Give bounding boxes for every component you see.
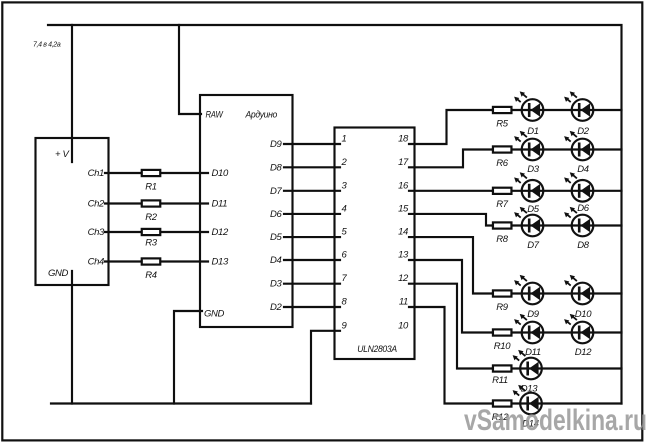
- svg-text:D6: D6: [577, 203, 590, 214]
- svg-text:R11: R11: [492, 375, 508, 386]
- svg-text:D9: D9: [527, 309, 540, 320]
- svg-text:D7: D7: [527, 240, 540, 251]
- svg-text:7,4 в 4,2а: 7,4 в 4,2а: [33, 42, 61, 49]
- svg-text:5: 5: [342, 227, 348, 238]
- svg-text:D2: D2: [577, 126, 590, 137]
- svg-text:D1: D1: [527, 126, 539, 137]
- svg-text:12: 12: [398, 273, 409, 284]
- svg-text:R6: R6: [496, 158, 509, 169]
- svg-text:GND: GND: [48, 268, 69, 279]
- svg-text:2: 2: [341, 157, 348, 168]
- svg-text:R8: R8: [496, 234, 509, 245]
- svg-text:D13: D13: [521, 384, 538, 395]
- svg-text:14: 14: [398, 227, 408, 238]
- svg-text:11: 11: [399, 297, 408, 308]
- svg-text:Ch1: Ch1: [88, 168, 104, 179]
- svg-text:R4: R4: [145, 270, 157, 281]
- svg-text:4: 4: [342, 203, 347, 214]
- svg-text:D11: D11: [212, 199, 228, 210]
- svg-text:17: 17: [398, 157, 409, 168]
- svg-text:Ардуино: Ардуино: [245, 110, 277, 121]
- svg-text:D7: D7: [270, 186, 283, 197]
- svg-text:D11: D11: [525, 347, 541, 358]
- svg-text:D3: D3: [270, 279, 283, 290]
- svg-text:D5: D5: [270, 232, 283, 243]
- svg-text:D5: D5: [527, 204, 540, 215]
- svg-text:D4: D4: [270, 255, 282, 266]
- svg-text:Ch3: Ch3: [88, 227, 105, 238]
- svg-text:R5: R5: [496, 119, 509, 130]
- svg-text:D8: D8: [270, 162, 283, 173]
- svg-text:R10: R10: [494, 341, 511, 352]
- svg-text:9: 9: [342, 320, 348, 331]
- svg-text:D2: D2: [270, 302, 283, 313]
- svg-text:D12: D12: [575, 347, 592, 358]
- svg-text:Ch4: Ch4: [88, 257, 104, 268]
- svg-text:D9: D9: [270, 139, 283, 150]
- svg-text:R1: R1: [145, 182, 157, 193]
- svg-text:ULN2803A: ULN2803A: [357, 344, 397, 355]
- svg-text:18: 18: [398, 134, 409, 145]
- svg-text:8: 8: [342, 297, 348, 308]
- svg-text:6: 6: [342, 250, 348, 261]
- svg-text:+ V: + V: [55, 149, 70, 160]
- svg-text:10: 10: [398, 320, 409, 331]
- svg-text:R7: R7: [496, 199, 509, 210]
- svg-text:15: 15: [398, 203, 409, 214]
- svg-text:vSamodelkina.ru: vSamodelkina.ru: [464, 404, 647, 437]
- svg-text:D3: D3: [527, 164, 540, 175]
- svg-text:D8: D8: [577, 240, 590, 251]
- svg-text:3: 3: [342, 180, 348, 191]
- svg-text:13: 13: [398, 250, 409, 261]
- svg-text:1: 1: [342, 134, 347, 145]
- svg-text:Ch2: Ch2: [88, 199, 105, 210]
- svg-text:RAW: RAW: [206, 110, 224, 121]
- svg-text:D4: D4: [577, 164, 589, 175]
- svg-text:R9: R9: [496, 302, 509, 313]
- svg-text:GND: GND: [204, 309, 225, 320]
- svg-text:16: 16: [398, 180, 409, 191]
- svg-text:D10: D10: [212, 168, 229, 179]
- svg-text:D6: D6: [270, 209, 283, 220]
- svg-text:D10: D10: [575, 309, 592, 320]
- svg-text:R3: R3: [145, 238, 158, 249]
- svg-text:7: 7: [342, 273, 348, 284]
- svg-text:R2: R2: [145, 212, 158, 223]
- svg-text:D13: D13: [212, 257, 229, 268]
- svg-text:D12: D12: [212, 227, 229, 238]
